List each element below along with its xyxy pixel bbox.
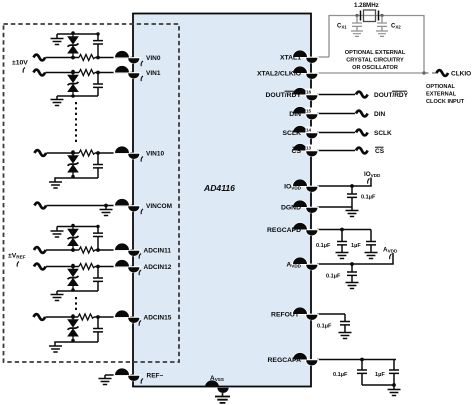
source squiggle [35,203,47,209]
pin label VINCOM [141,203,172,214]
svg-text:DGND: DGND [281,205,301,212]
ADCIN12 channel network [34,264,133,301]
IC body AD4116 [133,14,311,387]
source squiggle [34,264,46,270]
clock source squiggle [437,70,449,76]
svg-text:ADCIN11: ADCIN11 [144,248,172,255]
pin XTAL1 [292,50,319,63]
capacitor 0.1uF [357,360,367,386]
source squiggle [34,247,46,253]
pin AVDD [292,257,319,270]
cap return rail [362,384,394,386]
capacitor 0.1uF [346,264,359,289]
ground [56,291,58,295]
svg-text:ADCIN12: ADCIN12 [144,264,172,271]
crystal Y1 [355,10,383,22]
pin ADCIN15 [114,310,141,323]
IOVDD wire [317,178,371,187]
REF- pin wire to ground [99,375,134,385]
label DOUT/RDY [374,91,409,99]
wire [46,266,79,268]
svg-text:VIN10: VIN10 [146,151,164,158]
pin label VIN10 [141,151,164,162]
resistor [79,150,95,156]
resistor [79,264,95,270]
svg-text:CLOCK INPUT: CLOCK INPUT [426,99,465,105]
wire [45,316,78,318]
source squiggle [34,70,46,76]
ellipsis dotted line [75,102,77,142]
svg-text:REF−: REF− [147,373,164,380]
svg-text:EXTERNAL: EXTERNAL [426,92,457,98]
svg-text:AD4116: AD4116 [203,183,235,193]
ellipsis dotted line [75,297,77,310]
pin number 16 [306,89,314,95]
svg-text:DIN: DIN [289,111,301,118]
capacitor [93,225,103,250]
ADCIN11 channel network [34,224,133,253]
svg-text:XTAL2/CLKIO: XTAL2/CLKIO [257,71,301,78]
wire to pin [95,266,133,268]
pin label VIN1 [141,70,161,81]
resistor [79,247,95,253]
junction [340,228,344,232]
svg-text:1.28MHz: 1.28MHz [354,2,379,9]
capacitor CX1 [351,16,363,37]
svg-text:CS: CS [292,148,302,155]
optional clock dash [424,72,437,74]
svg-text:0.1µF: 0.1µF [316,243,331,249]
svg-text:OR OSCILLATOR: OR OSCILLATOR [352,65,398,71]
svg-text:VINCOM: VINCOM [146,203,172,210]
svg-text:0.1µF: 0.1µF [333,372,348,378]
svg-text:14: 14 [306,128,312,133]
AVDD wire [317,253,393,264]
ADCIN15 channel network [34,314,134,352]
label ±VREF [8,253,26,267]
resistor [79,55,95,61]
VIN0 channel network [34,31,134,60]
signal squiggle [356,130,368,136]
wire [45,57,79,59]
pin REFOUT [292,307,319,320]
junction dot [71,71,75,75]
ground [351,207,353,211]
VIN1 channel network [34,70,134,106]
pin label CS [292,147,302,155]
svg-text:15: 15 [306,109,312,114]
rail wire [57,290,98,292]
capacitor [93,71,103,96]
svg-text:1µF: 1µF [351,243,361,249]
TVS diodes [68,31,79,59]
XTAL2/CLKIO wire [317,72,424,74]
ground [49,182,62,188]
ground [393,385,395,390]
signal squiggle [356,111,368,117]
svg-text:REGCAPA: REGCAPA [268,357,302,364]
wire to pin [95,57,133,59]
pin label ADCIN12 [139,264,172,275]
rail wire [55,342,98,346]
DGND wire [317,206,352,208]
junction dot [104,204,108,208]
AVSS ground [222,393,224,397]
rail wire [57,95,98,97]
junction [350,262,354,266]
pin ADCIN11 [114,243,141,256]
svg-text:DIN: DIN [374,111,386,118]
DIN wire [317,113,355,115]
capacitor [93,315,103,342]
junction dot [71,151,75,155]
resistor [79,70,95,76]
pin VIN1 [114,65,141,78]
source squiggle [34,314,46,320]
TVS diodes [68,150,79,178]
REFOUT wire [317,313,345,315]
junction dots [71,248,75,252]
pin VINCOM [114,198,141,211]
pin number 15 [306,108,314,114]
wire to pin [95,249,133,251]
junction dot [71,265,75,269]
label ±10V [12,60,28,73]
TVS diodes [68,70,79,98]
svg-text:0.1µF: 0.1µF [361,195,376,201]
svg-text:SCLK: SCLK [282,130,301,137]
svg-text:VIN0: VIN0 [146,55,161,62]
pin label VIN0 [141,55,161,66]
pin IOVDD [292,179,319,192]
svg-text:SCLK: SCLK [374,130,392,137]
VIN10 channel network [35,150,134,188]
svg-text:±10V: ±10V [12,60,28,67]
capacitor [93,265,103,291]
ground [56,96,58,100]
svg-text:REFOUT: REFOUT [271,312,300,319]
ground [56,34,58,39]
pin REGCAPD [292,222,319,235]
capacitor 0.1uF [339,314,352,339]
note external clock [426,84,465,105]
signal squiggle [356,148,368,154]
wire to pin [95,72,133,74]
pin VIN0 [114,50,141,63]
pin label REF- [141,373,163,384]
DOUT/RDY wire [317,94,355,96]
wire to pin [95,152,133,154]
svg-text:CS: CS [375,148,385,155]
dashed input-circuitry box [4,24,180,362]
capacitor 0.1uF [336,230,349,259]
signal squiggle [356,92,368,98]
rail wire [57,33,98,35]
ground [104,375,106,379]
VINCOM wire [35,203,134,216]
crystal loop wire [329,16,424,74]
capacitor 1uF [365,230,378,259]
svg-text:DOUT/RDY: DOUT/RDY [374,92,409,99]
junction dot regcapa [360,358,364,362]
wire [46,205,133,207]
junction dots [71,56,75,60]
CS wire [317,150,355,152]
ground [56,227,58,232]
capacitor [93,32,103,57]
svg-text:XTAL1: XTAL1 [280,55,301,62]
junction [392,383,396,387]
TVS diodes [68,314,79,342]
wire [45,72,79,74]
rail wire [57,226,98,228]
svg-text:CLKIO: CLKIO [451,71,471,78]
wire [46,152,79,154]
source squiggle [35,150,47,156]
source squiggle [34,55,46,61]
capacitor [93,151,103,178]
resistor [78,314,94,320]
capacitor CX2 [376,16,388,37]
ground [49,346,62,352]
SCLK wire [317,132,355,134]
svg-text:1µF: 1µF [375,372,385,378]
pin REGCAPA [292,352,319,365]
svg-text:OPTIONAL EXTERNAL: OPTIONAL EXTERNAL [345,50,406,56]
pin SCLK [292,125,319,138]
svg-text:16: 16 [306,90,312,95]
svg-text:0.1µF: 0.1µF [317,324,332,330]
svg-text:VIN1: VIN1 [146,70,161,77]
svg-text:CX1: CX1 [337,24,347,30]
pin label DOUT/RDY [266,91,302,99]
wire [46,249,79,251]
TVS diodes [68,224,79,252]
wire to pin [94,316,133,318]
junction [422,71,425,74]
svg-text:CRYSTAL CIRCUITRY: CRYSTAL CIRCUITRY [346,58,404,64]
note crystal circuitry [345,50,406,71]
svg-text:ADCIN15: ADCIN15 [144,315,172,322]
svg-text:CX2: CX2 [391,24,401,30]
pin number 14 [306,127,314,133]
junction dot [71,315,75,319]
pin XTAL2/CLKIO [292,66,319,79]
capacitor 1uF [389,360,399,386]
supply tick [368,179,370,184]
pin label ADCIN11 [139,248,171,259]
rail wire [55,178,98,182]
svg-text:REGCAPD: REGCAPD [267,227,301,234]
REGCAPD wire [317,229,371,231]
pin DIN [292,106,319,119]
ground [105,206,107,210]
svg-text:13: 13 [306,146,312,151]
supply tick [390,254,392,259]
pin REF- [114,368,141,381]
pin number 13 [306,145,314,151]
XTAL1 wire [317,56,329,58]
svg-text:OPTIONAL: OPTIONAL [426,84,455,90]
pin DOUT/RDY [292,87,319,100]
svg-text:DOUT/RDY: DOUT/RDY [266,92,302,99]
pin DGND [292,200,319,213]
pin CS [292,143,319,156]
svg-text:0.1µF: 0.1µF [326,274,341,280]
junction [350,184,354,188]
label CS [375,147,385,155]
capacitor 0.1uF [347,186,357,207]
pin AVSS [205,380,229,393]
pin VIN10 [114,146,141,159]
REGCAPA wire [317,359,396,361]
TVS diodes [68,264,79,292]
pin label ADCIN15 [139,315,172,326]
pin ADCIN12 [114,259,141,272]
